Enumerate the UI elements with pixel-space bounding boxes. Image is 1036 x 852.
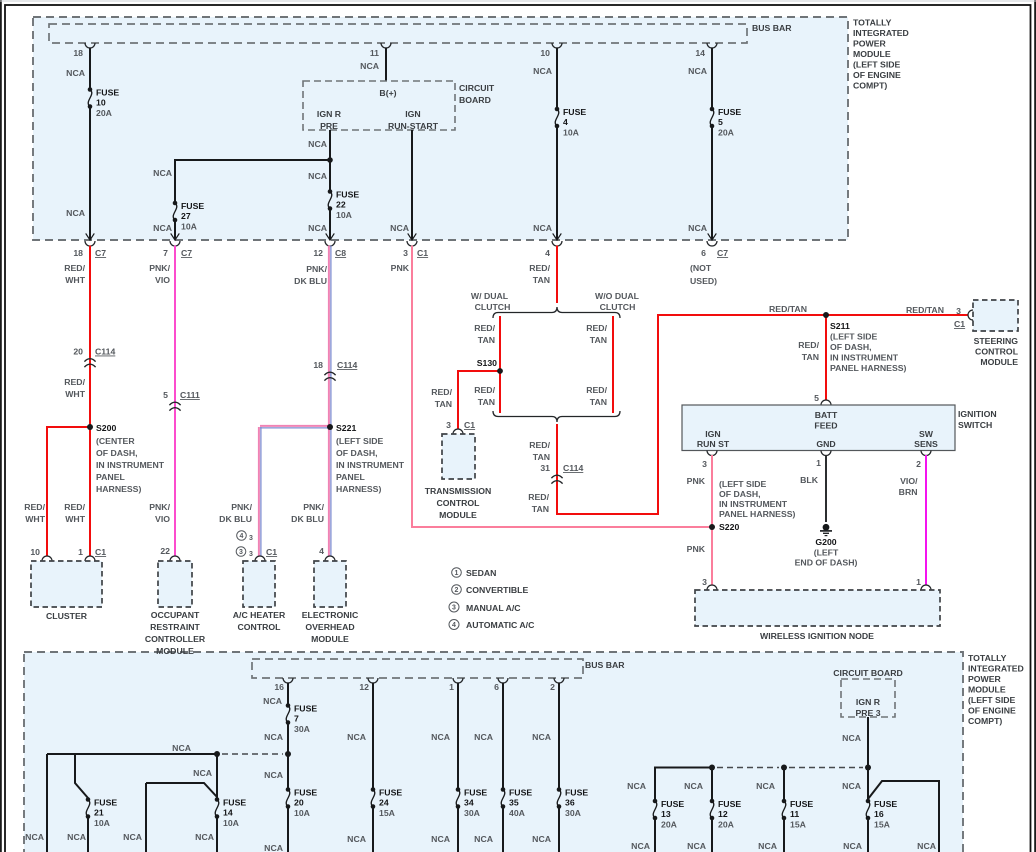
wire NCA fuse4 to pin 4	[556, 127, 558, 240]
svg-text:PRE 3: PRE 3	[855, 708, 880, 718]
svg-text:NCA: NCA	[153, 223, 173, 233]
svg-text:PNK/: PNK/	[303, 502, 324, 512]
svg-text:NCA: NCA	[195, 832, 215, 842]
svg-text:C114: C114	[337, 360, 357, 370]
cluster pin 10 connector	[42, 556, 52, 561]
svg-text:NCA: NCA	[172, 743, 192, 753]
wire PNK pin3 C1 to splice S220	[412, 246, 712, 528]
wire fuse12 down	[711, 819, 713, 852]
svg-text:NCA: NCA	[756, 781, 776, 791]
junction node on IGN R PRE wire	[327, 157, 333, 163]
legend footnote 3 manual a/c	[449, 602, 459, 612]
svg-text:PNK: PNK	[687, 476, 706, 486]
svg-text:10A: 10A	[336, 210, 353, 220]
wire NCA pin16 to fuse 7	[287, 683, 289, 706]
svg-text:NCA: NCA	[264, 843, 284, 852]
svg-text:20A: 20A	[718, 128, 735, 138]
fuse 14 10A	[215, 797, 220, 802]
EOM pin 4 connector	[325, 556, 335, 561]
wire RED/WHT S200 to cluster pin 1 C1	[89, 427, 91, 556]
svg-text:PNK/: PNK/	[306, 264, 327, 274]
wire VIO/BRN ignition switch to wireless ignition node pin 1	[925, 455, 927, 585]
svg-text:3: 3	[249, 551, 253, 558]
pin 3 C1 connector	[407, 241, 417, 246]
svg-text:OVERHEAD: OVERHEAD	[305, 622, 354, 632]
svg-text:CLUTCH: CLUTCH	[600, 302, 636, 312]
svg-text:NCA: NCA	[308, 223, 328, 233]
svg-text:S211: S211	[830, 321, 850, 331]
svg-text:(LEFT: (LEFT	[814, 548, 839, 558]
svg-text:TAN: TAN	[533, 452, 550, 462]
svg-text:1: 1	[78, 547, 83, 557]
svg-text:RED/: RED/	[64, 377, 85, 387]
svg-text:2: 2	[550, 682, 555, 692]
svg-text:WHT: WHT	[65, 275, 85, 285]
junction node fuse7 output	[285, 751, 291, 757]
svg-text:4: 4	[319, 546, 324, 556]
svg-text:PNK/: PNK/	[149, 502, 170, 512]
svg-text:MANUAL A/C: MANUAL A/C	[466, 603, 521, 613]
wire NCA horizontal feed	[47, 753, 217, 755]
svg-text:RED/: RED/	[474, 323, 495, 333]
module box: occupant restraint controller module	[158, 561, 192, 607]
module box: cluster	[31, 561, 102, 607]
svg-text:4: 4	[240, 533, 244, 540]
svg-text:SEDAN: SEDAN	[466, 568, 496, 578]
svg-text:IN INSTRUMENT: IN INSTRUMENT	[719, 499, 788, 509]
wire NCA fuse5 to pin 6 C7	[711, 127, 713, 240]
svg-text:NCA: NCA	[758, 841, 778, 851]
module box: steering control module	[973, 300, 1018, 331]
svg-text:36: 36	[565, 798, 575, 808]
wire fuse12 node down	[711, 768, 713, 801]
svg-text:C1: C1	[417, 248, 428, 258]
svg-text:WHT: WHT	[65, 389, 85, 399]
svg-text:OF DASH,: OF DASH,	[719, 489, 761, 499]
svg-text:(LEFT SIDE: (LEFT SIDE	[336, 436, 384, 446]
wire PNK ignition switch to S220	[711, 455, 713, 527]
wire PNK/DK BLU S221 branch to A/C heater control	[260, 425, 330, 427]
pin 18 bus bar connector	[85, 43, 95, 48]
svg-text:CIRCUIT: CIRCUIT	[459, 83, 495, 93]
svg-text:FUSE: FUSE	[181, 201, 204, 211]
svg-text:10: 10	[540, 48, 550, 58]
circuit board box (top)	[303, 81, 455, 130]
svg-text:NCA: NCA	[842, 733, 862, 743]
wire NCA fuse 35 down	[502, 807, 504, 852]
svg-text:OF DASH,: OF DASH,	[96, 448, 138, 458]
wire PNK/DK BLU S221 to electronic overhead module pin 4	[328, 427, 330, 556]
svg-text:4: 4	[545, 248, 550, 258]
ignition switch pin 1 connector	[821, 451, 831, 456]
svg-text:NCA: NCA	[153, 168, 173, 178]
svg-text:18: 18	[313, 360, 323, 370]
svg-text:MODULE: MODULE	[156, 646, 194, 656]
svg-text:4: 4	[563, 117, 568, 127]
fuse 7 30A	[286, 703, 291, 708]
svg-text:RED/TAN: RED/TAN	[906, 305, 944, 315]
svg-text:NCA: NCA	[66, 208, 86, 218]
svg-text:1: 1	[816, 458, 821, 468]
svg-text:20: 20	[73, 347, 83, 357]
wire RED/WHT pin18 C7 to C114	[89, 246, 91, 363]
svg-text:18: 18	[73, 248, 83, 258]
svg-text:3: 3	[403, 248, 408, 258]
svg-text:FEED: FEED	[814, 421, 837, 431]
ORC pin 22 connector	[170, 556, 180, 561]
svg-text:CLUTCH: CLUTCH	[475, 302, 511, 312]
svg-text:3: 3	[702, 577, 707, 587]
svg-text:IGN R: IGN R	[856, 697, 881, 707]
svg-text:RED/: RED/	[528, 492, 549, 502]
svg-text:CIRCUIT BOARD: CIRCUIT BOARD	[833, 668, 903, 678]
circuit board box (bottom)	[841, 679, 895, 717]
ignition switch pin 5 connector	[821, 400, 831, 405]
svg-text:IN INSTRUMENT: IN INSTRUMENT	[830, 353, 899, 363]
pin 6 bus bar connector	[498, 678, 508, 683]
svg-text:OF ENGINE: OF ENGINE	[968, 706, 1016, 716]
svg-text:GND: GND	[816, 439, 835, 449]
pin 11 bus bar connector	[381, 43, 391, 48]
bus bar (top)	[49, 24, 747, 43]
svg-text:C1: C1	[954, 319, 965, 329]
wire NCA pin11 to circuit board B(+)	[385, 48, 387, 82]
module box: wireless ignition node	[695, 590, 940, 626]
svg-text:NCA: NCA	[684, 781, 704, 791]
pin 6 C7 connector (not used)	[707, 241, 717, 246]
pin 18 C7 connector	[85, 241, 95, 246]
svg-text:NCA: NCA	[67, 832, 87, 842]
svg-text:NCA: NCA	[308, 139, 328, 149]
svg-text:31: 31	[540, 463, 550, 473]
svg-text:B(+): B(+)	[379, 88, 396, 98]
svg-text:NCA: NCA	[688, 66, 708, 76]
svg-text:BUS BAR: BUS BAR	[585, 660, 625, 670]
svg-text:WHT: WHT	[65, 514, 85, 524]
svg-text:5: 5	[718, 117, 723, 127]
svg-text:5: 5	[163, 390, 168, 400]
svg-text:C114: C114	[95, 347, 115, 357]
wire fuse13 down	[654, 819, 656, 852]
svg-text:FUSE: FUSE	[294, 704, 317, 714]
svg-text:W/O DUAL: W/O DUAL	[595, 291, 640, 301]
wire fuse11 node down	[783, 768, 785, 801]
svg-text:NCA: NCA	[631, 841, 651, 851]
fuse 10 20A	[88, 87, 93, 92]
svg-text:IN INSTRUMENT: IN INSTRUMENT	[336, 460, 405, 470]
wire fuse16 down	[867, 819, 869, 852]
wire junction to fuse 27 branch	[175, 160, 330, 202]
svg-text:NCA: NCA	[263, 696, 283, 706]
svg-text:IGN: IGN	[705, 429, 720, 439]
svg-text:FUSE: FUSE	[509, 788, 532, 798]
svg-text:FUSE: FUSE	[94, 798, 117, 808]
svg-text:RED/: RED/	[586, 385, 607, 395]
svg-text:FUSE: FUSE	[661, 799, 684, 809]
svg-text:(LEFT SIDE: (LEFT SIDE	[853, 60, 901, 70]
svg-text:MODULE: MODULE	[968, 685, 1006, 695]
svg-text:S221: S221	[336, 423, 356, 433]
svg-text:NCA: NCA	[390, 223, 410, 233]
svg-text:NCA: NCA	[474, 834, 494, 844]
svg-text:BUS BAR: BUS BAR	[752, 23, 792, 33]
svg-text:END OF DASH): END OF DASH)	[795, 558, 858, 568]
svg-text:C8: C8	[335, 248, 346, 258]
wire fuse21 down	[87, 818, 89, 852]
fuse 16 15A	[866, 799, 871, 804]
wire RED/TAN C114 up to S211 run	[557, 315, 824, 514]
svg-text:C114: C114	[563, 463, 583, 473]
wire NCA fuse 34 down	[457, 807, 459, 852]
page border top hairline	[0, 0, 1036, 2]
pin 2 bus bar connector	[554, 678, 564, 683]
svg-text:IGN R: IGN R	[317, 109, 342, 119]
svg-text:3: 3	[702, 459, 707, 469]
svg-text:(LEFT SIDE: (LEFT SIDE	[719, 479, 767, 489]
svg-text:AUTOMATIC A/C: AUTOMATIC A/C	[466, 620, 535, 630]
svg-text:BRN: BRN	[899, 487, 918, 497]
svg-text:VIO: VIO	[155, 275, 170, 285]
wire NCA pin 1 to fuse 34	[457, 683, 459, 790]
svg-text:MODULE: MODULE	[311, 634, 349, 644]
svg-text:SENS: SENS	[914, 439, 938, 449]
wire IGN R PRE down from circuit board	[329, 130, 331, 160]
svg-text:DK BLU: DK BLU	[219, 514, 252, 524]
wire RED/TAN S211 to steering control module pin 3 C1	[826, 314, 968, 316]
wire NCA junction to fuse 20	[287, 754, 289, 789]
wire RED/TAN without-dual-clutch branch	[612, 316, 614, 413]
svg-text:NCA: NCA	[264, 732, 284, 742]
svg-text:TRANSMISSION: TRANSMISSION	[425, 486, 492, 496]
svg-text:NCA: NCA	[308, 171, 328, 181]
svg-text:COMPT): COMPT)	[968, 716, 1002, 726]
svg-text:NCA: NCA	[431, 834, 451, 844]
svg-text:W/ DUAL: W/ DUAL	[471, 291, 509, 301]
fuse 13 20A	[653, 799, 658, 804]
wire junction down to fuse 14	[216, 754, 218, 798]
svg-text:NCA: NCA	[347, 732, 367, 742]
svg-text:CONTROL: CONTROL	[975, 347, 1019, 357]
wire NCA pin10 to fuse 4	[556, 48, 558, 109]
svg-text:NCA: NCA	[360, 61, 380, 71]
svg-text:11: 11	[790, 809, 799, 819]
module box: electronic overhead module	[314, 561, 346, 607]
svg-text:CONTROLLER: CONTROLLER	[145, 634, 206, 644]
svg-text:SWITCH: SWITCH	[958, 420, 992, 430]
svg-text:TAN: TAN	[532, 504, 549, 514]
svg-text:S200: S200	[96, 423, 116, 433]
svg-text:FUSE: FUSE	[336, 190, 359, 200]
svg-text:WHT: WHT	[25, 514, 45, 524]
wire NCA fuse27 to pin 7 C7	[174, 221, 176, 240]
svg-text:POWER: POWER	[853, 39, 887, 49]
svg-text:OCCUPANT: OCCUPANT	[151, 610, 200, 620]
pin 14 bus bar connector	[707, 43, 717, 48]
svg-text:PNK/: PNK/	[231, 502, 252, 512]
pin 12 bus bar connector	[368, 678, 378, 683]
svg-text:34: 34	[464, 798, 474, 808]
svg-text:1: 1	[916, 577, 921, 587]
svg-text:3: 3	[446, 420, 451, 430]
svg-text:FUSE: FUSE	[294, 788, 317, 798]
svg-text:MODULE: MODULE	[439, 510, 477, 520]
TCM pin 3 C1 connector	[453, 429, 463, 434]
wire RED/WHT C114 to splice S200	[89, 358, 91, 427]
svg-text:DK BLU: DK BLU	[294, 276, 327, 286]
wire NCA fuse 24 down	[372, 807, 374, 852]
svg-text:6: 6	[701, 248, 706, 258]
svg-text:3: 3	[956, 306, 961, 316]
svg-text:PANEL: PANEL	[96, 472, 125, 482]
module box: transmission control module	[442, 434, 475, 479]
pin 4 connector	[552, 241, 562, 246]
svg-text:20A: 20A	[96, 108, 113, 118]
wire RED/TAN with-dual-clutch branch	[499, 316, 501, 413]
dashed jumper wire to bus junction	[222, 753, 283, 755]
fuse 5 20A	[710, 107, 715, 112]
svg-text:C1: C1	[266, 547, 277, 557]
footnote 4 pin 3 marker	[237, 531, 247, 541]
svg-text:FUSE: FUSE	[464, 788, 487, 798]
svg-text:2: 2	[455, 587, 459, 594]
svg-text:5: 5	[814, 393, 819, 403]
svg-text:RED/: RED/	[64, 502, 85, 512]
svg-text:COMPT): COMPT)	[853, 81, 887, 91]
svg-text:20: 20	[294, 798, 304, 808]
clutch option split brace	[493, 307, 620, 318]
svg-text:IGNITION: IGNITION	[958, 409, 997, 419]
splice S220 node dot	[709, 524, 715, 530]
fuse 24 15A	[371, 787, 376, 792]
junction node circuit board wire	[865, 765, 871, 771]
module box: totally integrated power module (bottom)	[24, 652, 963, 852]
svg-text:13: 13	[661, 809, 671, 819]
splice S221 node dot	[327, 424, 333, 430]
svg-text:A/C HEATER: A/C HEATER	[233, 610, 286, 620]
wire RED/TAN pin 4 down to clutch split	[556, 246, 558, 304]
svg-text:RUN-START: RUN-START	[388, 121, 439, 131]
svg-text:10A: 10A	[294, 808, 311, 818]
svg-text:NCA: NCA	[532, 834, 552, 844]
pin 12 C8 connector	[325, 241, 335, 246]
svg-text:RESTRAINT: RESTRAINT	[150, 622, 200, 632]
fuse 12 20A	[710, 799, 715, 804]
wire solid jumper to fuse 13 branch	[655, 768, 712, 801]
fuse 4 10A	[555, 107, 560, 112]
pin 10 bus bar connector	[552, 43, 562, 48]
svg-text:SW: SW	[919, 429, 934, 439]
ground G200	[823, 524, 830, 531]
wire drop to fuse 21	[75, 754, 88, 798]
svg-text:NCA: NCA	[533, 223, 553, 233]
svg-text:NCA: NCA	[193, 768, 213, 778]
svg-text:3: 3	[239, 549, 243, 556]
pin 1 bus bar connector	[453, 678, 463, 683]
wire RED/TAN merge to C114 pin 31	[556, 424, 558, 478]
svg-text:CLUSTER: CLUSTER	[46, 611, 88, 621]
wire NCA circuit board to junction	[867, 717, 869, 767]
svg-text:HARNESS): HARNESS)	[336, 484, 381, 494]
ignition switch pin 3 connector	[707, 451, 717, 456]
wire NCA fuse20 down	[287, 807, 289, 852]
svg-text:INTEGRATED: INTEGRATED	[968, 664, 1024, 674]
svg-text:14: 14	[695, 48, 705, 58]
svg-text:4: 4	[452, 622, 456, 629]
page border left	[0, 0, 2, 852]
junction node fuse 12	[709, 765, 715, 771]
wire NCA junction to fuse 22	[329, 160, 331, 191]
svg-text:RED/: RED/	[431, 387, 452, 397]
svg-text:NCA: NCA	[533, 66, 553, 76]
svg-text:USED): USED)	[690, 276, 717, 286]
svg-text:30A: 30A	[464, 808, 481, 818]
svg-text:10A: 10A	[223, 818, 240, 828]
svg-text:RED/: RED/	[474, 385, 495, 395]
svg-text:16: 16	[874, 809, 884, 819]
WIN pin 1 connector	[921, 585, 931, 590]
svg-text:NCA: NCA	[687, 841, 707, 851]
svg-text:PANEL HARNESS): PANEL HARNESS)	[719, 509, 796, 519]
svg-text:RED/: RED/	[64, 263, 85, 273]
svg-text:35: 35	[509, 798, 519, 808]
wire PNK/DK BLU C114 to splice S221	[328, 372, 330, 427]
svg-text:NCA: NCA	[842, 781, 862, 791]
svg-text:NCA: NCA	[627, 781, 647, 791]
pin 16 bus bar connector	[283, 678, 293, 683]
svg-text:POWER: POWER	[968, 674, 1002, 684]
svg-text:IN INSTRUMENT: IN INSTRUMENT	[96, 460, 165, 470]
svg-text:TAN: TAN	[802, 352, 819, 362]
wire junction down to fuse 16	[867, 768, 869, 801]
wire fuse14 down	[216, 818, 218, 852]
svg-text:NCA: NCA	[66, 68, 86, 78]
svg-text:C111: C111	[180, 390, 200, 400]
svg-text:IGN: IGN	[405, 109, 420, 119]
svg-text:TAN: TAN	[478, 335, 495, 345]
svg-text:TAN: TAN	[533, 275, 550, 285]
svg-text:16: 16	[274, 682, 284, 692]
svg-text:PNK: PNK	[391, 263, 410, 273]
module box: ignition switch	[682, 405, 955, 451]
svg-text:(LEFT SIDE: (LEFT SIDE	[968, 695, 1016, 705]
svg-text:ELECTRONIC: ELECTRONIC	[302, 610, 359, 620]
svg-text:TAN: TAN	[590, 397, 607, 407]
svg-text:BATT: BATT	[815, 410, 838, 420]
svg-text:3: 3	[249, 535, 253, 542]
wire NCA pin18 to fuse10	[89, 48, 91, 89]
svg-text:10A: 10A	[563, 128, 580, 138]
svg-text:INTEGRATED: INTEGRATED	[853, 28, 909, 38]
svg-text:PRE: PRE	[320, 121, 338, 131]
legend footnote 4 automatic a/c	[449, 620, 459, 630]
svg-text:(NOT: (NOT	[690, 263, 712, 273]
cluster pin 1 C1 connector	[85, 556, 95, 561]
svg-text:CONTROL: CONTROL	[437, 498, 481, 508]
svg-text:30A: 30A	[294, 724, 311, 734]
svg-text:TAN: TAN	[478, 397, 495, 407]
svg-text:FUSE: FUSE	[223, 798, 246, 808]
svg-text:RED/: RED/	[24, 502, 45, 512]
legend footnote 2 convertible	[452, 585, 462, 595]
svg-text:FUSE: FUSE	[718, 107, 741, 117]
svg-text:TAN: TAN	[435, 399, 452, 409]
svg-text:MODULE: MODULE	[980, 357, 1018, 367]
wire IGN RUN-START to pin 3 C1	[411, 130, 413, 240]
wire NCA pin 2 to fuse 36	[558, 683, 560, 790]
svg-text:FUSE: FUSE	[379, 788, 402, 798]
fuse 36 30A	[557, 787, 562, 792]
svg-text:BOARD: BOARD	[459, 95, 491, 105]
